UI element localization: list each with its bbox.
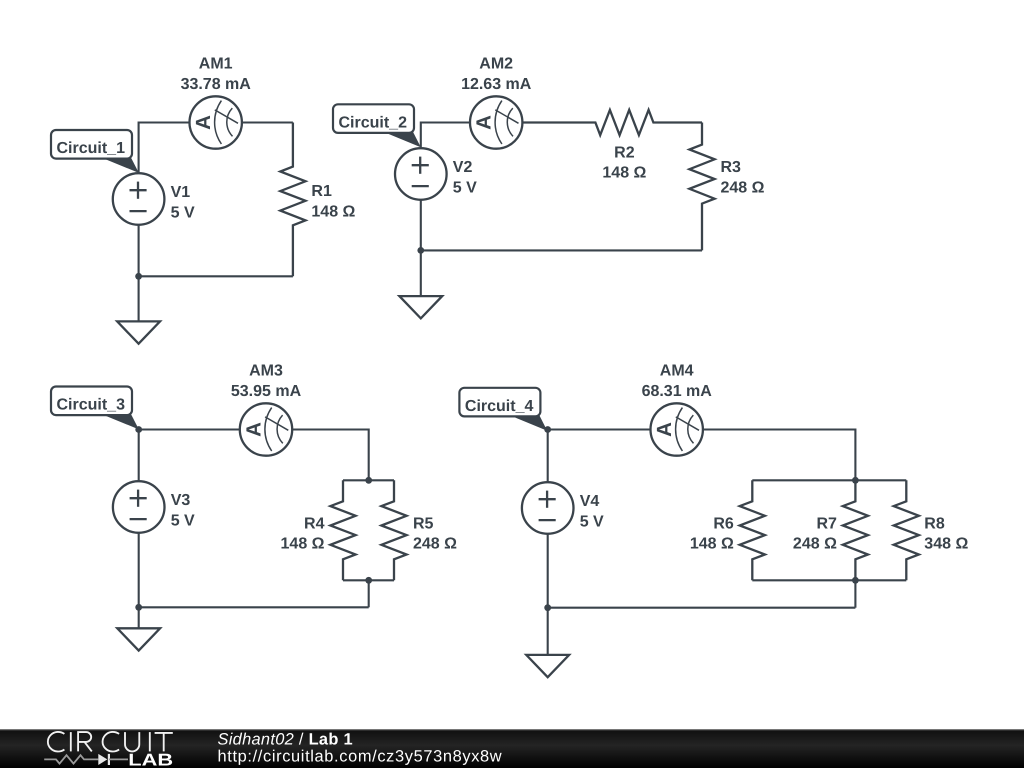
wire bottom rail (Circuit_4) [548,607,856,609]
svg-text:68.31 mA: 68.31 mA [642,383,713,400]
junction at V1 bottom node [135,273,142,280]
resistor R7 name and value labels [793,515,837,552]
svg-text:53.95 mA: 53.95 mA [231,383,302,400]
svg-text:AM4: AM4 [660,362,694,379]
resistor R5 [381,480,406,580]
net flag label Circuit_4 [459,388,547,431]
resistor R2 name and value labels [602,144,646,181]
wire parallel bottom rail (Circuit_3) [343,579,394,581]
wire parallel trio down [854,580,856,607]
svg-text:R7: R7 [816,515,837,532]
svg-text:V3: V3 [171,492,191,509]
junction at parallel bottom rail (Circuit_4) [852,577,859,584]
svg-text:A: A [242,422,265,437]
svg-text:5 V: 5 V [171,204,195,221]
svg-text:R5: R5 [413,515,434,532]
junction at V4 bottom node [544,604,551,611]
wire to ground (Circuit_3) [138,607,140,628]
resistor R1 name and value labels [311,183,355,220]
wire parallel top rail (Circuit_4) [752,479,906,481]
svg-text:148 Ω: 148 Ω [602,165,646,182]
junction at V2 bottom node [417,247,424,254]
ground (Circuit_2) [399,296,442,318]
junction at parallel bottom rail (Circuit_3) [365,577,372,584]
ammeter AM4 [651,403,703,455]
ammeter AM2 name and value labels [461,55,532,93]
svg-text:A: A [473,115,496,130]
svg-text:248 Ω: 248 Ω [721,179,765,196]
wire to ground (Circuit_2) [420,250,422,296]
ammeter AM4 name and value labels [642,362,713,400]
svg-text:348 Ω: 348 Ω [924,536,968,553]
voltage source V4 name and value labels [580,493,604,530]
svg-text:V2: V2 [453,159,473,176]
svg-text:148 Ω: 148 Ω [311,203,355,220]
voltage source V1 [113,173,165,225]
wire V3 bottom [138,533,140,608]
wire AM1 to R1 top [242,121,293,123]
ammeter AM3 [240,403,292,455]
wire V2 top to corner (Circuit_2) [421,123,470,149]
svg-text:http://circuitlab.com/cz3y573n: http://circuitlab.com/cz3y573n8yx8w [218,748,503,766]
svg-text:33.78 mA: 33.78 mA [181,76,252,93]
junction at parallel top rail (Circuit_4) [852,477,859,484]
svg-text:A: A [653,422,676,437]
voltage source V3 name and value labels [171,492,195,529]
junction at Circuit_3 flag node [135,426,142,433]
svg-text:V4: V4 [580,493,600,510]
svg-text:5 V: 5 V [580,513,604,530]
junction at Circuit_4 flag node [544,426,551,433]
resistor R2 [522,110,702,135]
svg-text:5 V: 5 V [171,512,195,529]
svg-text:5 V: 5 V [453,179,477,196]
svg-text:AM2: AM2 [479,55,513,72]
svg-text:148 Ω: 148 Ω [690,536,734,553]
CircuitLab logo resistor-diode glyph [44,754,128,765]
CircuitLab logo wordmark CIRCUIT [48,732,173,752]
svg-text:V1: V1 [171,184,191,201]
voltage source V2 [395,148,447,200]
wire AM3 to parallel pair corner [292,430,369,481]
svg-text:12.63 mA: 12.63 mA [461,76,532,93]
wire V1 bottom [138,225,140,276]
resistor R3 [689,123,714,251]
wire node to V4 top [547,430,549,483]
wire bottom rail (Circuit_1) [139,275,293,277]
resistor R1 [280,123,305,277]
svg-text:AM1: AM1 [199,55,233,72]
wire V2 bottom [420,200,422,251]
svg-text:R2: R2 [614,144,635,161]
resistor R4 [330,480,355,580]
ammeter AM3 name and value labels [231,362,302,400]
resistor R5 name and value labels [413,515,457,552]
resistor R8 [894,480,919,580]
svg-text:R3: R3 [721,159,742,176]
resistor R7 [843,480,868,580]
wire bottom rail (Circuit_3) [139,606,369,608]
footer bar [0,729,1024,768]
svg-text:R1: R1 [311,183,332,200]
wire node to AM4 (Circuit_4) [548,428,651,430]
ground (Circuit_4) [526,655,569,677]
svg-text:AM3: AM3 [249,362,283,379]
junction at V3 bottom node [135,604,142,611]
resistor R6 name and value labels [690,515,734,552]
svg-text:248 Ω: 248 Ω [793,536,837,553]
svg-text:A: A [192,115,215,130]
svg-text:Circuit_4: Circuit_4 [465,398,534,415]
net flag label Circuit_2 [333,104,421,147]
wire parallel top rail (Circuit_3) [343,479,394,481]
svg-text:Circuit_3: Circuit_3 [57,397,126,414]
CircuitLab logo wordmark LAB [128,751,173,768]
voltage source V2 name and value labels [453,159,477,196]
wire node to V3 top [138,430,140,482]
voltage source V3 [113,481,165,533]
resistor R4 name and value labels [281,515,325,552]
wire to ground (Circuit_1) [138,276,140,321]
ammeter AM2 [470,96,522,148]
ammeter AM1 name and value labels [181,55,252,93]
svg-text:R6: R6 [713,515,734,532]
wire AM4 to parallel trio corner [703,430,856,481]
svg-text:248 Ω: 248 Ω [413,536,457,553]
ground (Circuit_3) [117,628,160,650]
wire V1 top to corner (Circuit_1) [139,123,190,174]
wire V4 bottom [547,534,549,608]
resistor R8 name and value labels [924,515,968,552]
junction at parallel top rail (Circuit_3) [365,477,372,484]
wire parallel pair down [368,580,370,607]
net flag label Circuit_1 [51,130,139,173]
wire bottom rail (Circuit_2) [421,249,702,251]
voltage source V1 name and value labels [171,184,195,221]
footer title text Sidhant02 / Lab 1 [218,730,353,748]
resistor R3 name and value labels [721,159,765,196]
ground (Circuit_1) [117,321,160,343]
net flag label Circuit_3 [51,387,139,430]
wire to ground (Circuit_4) [547,608,549,655]
ammeter AM1 [190,96,242,148]
svg-text:Circuit_2: Circuit_2 [339,115,408,132]
wire node to AM3 (Circuit_3) [139,428,240,430]
svg-text:LAB: LAB [128,751,173,768]
svg-text:R8: R8 [924,515,945,532]
svg-text:Sidhant02 / Lab 1: Sidhant02 / Lab 1 [218,730,353,748]
svg-text:148 Ω: 148 Ω [281,536,325,553]
resistor R6 [740,480,765,580]
footer url text [218,748,503,766]
svg-text:Circuit_1: Circuit_1 [57,140,126,157]
voltage source V4 [522,482,574,534]
wire parallel bottom rail (Circuit_4) [752,579,906,581]
svg-text:R4: R4 [304,515,325,532]
